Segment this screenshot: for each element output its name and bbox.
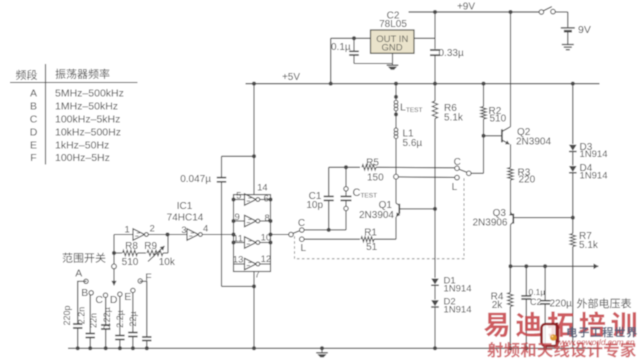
svg-text:4: 4: [203, 223, 208, 234]
svg-text:2: 2: [150, 224, 155, 235]
svg-text:+5V: +5V: [282, 72, 300, 83]
svg-text:0.1µ: 0.1µ: [331, 42, 351, 53]
svg-text:L: L: [452, 182, 458, 193]
svg-text:C2: C2: [530, 297, 542, 307]
svg-text:14: 14: [257, 182, 268, 193]
svg-text:2N3904: 2N3904: [359, 210, 394, 221]
svg-text:1kHz–50Hz: 1kHz–50Hz: [55, 140, 109, 152]
svg-text:220p: 220p: [62, 305, 72, 325]
svg-text:1: 1: [125, 225, 130, 236]
svg-text:D: D: [30, 127, 38, 139]
svg-text:3: 3: [181, 225, 186, 236]
svg-text:10p: 10p: [306, 200, 323, 211]
svg-text:1N914: 1N914: [444, 305, 472, 316]
svg-text:C: C: [454, 157, 461, 168]
svg-text:0.1µ: 0.1µ: [529, 287, 546, 297]
svg-text:78L05: 78L05: [379, 19, 407, 30]
svg-text:220µ: 220µ: [550, 299, 573, 310]
svg-text:100kHz–5kHz: 100kHz–5kHz: [55, 114, 120, 126]
svg-text:5: 5: [236, 191, 241, 202]
svg-text:1N914: 1N914: [580, 149, 608, 160]
svg-text:1N914: 1N914: [444, 284, 472, 295]
svg-text:8: 8: [264, 213, 269, 224]
svg-text:9V: 9V: [578, 24, 591, 36]
svg-text:GND: GND: [381, 42, 402, 53]
svg-text:510: 510: [122, 257, 139, 268]
svg-text:10kHz–500Hz: 10kHz–500Hz: [55, 127, 121, 139]
svg-text:F: F: [30, 152, 36, 164]
svg-text:C: C: [95, 294, 103, 306]
svg-text:5.1k: 5.1k: [444, 113, 464, 124]
svg-text:510: 510: [490, 114, 507, 125]
svg-text:B: B: [30, 101, 37, 113]
svg-text:1MHz–50kHz: 1MHz–50kHz: [55, 101, 118, 113]
svg-text:5.6µ: 5.6µ: [403, 138, 423, 149]
svg-text:0.33µ: 0.33µ: [439, 48, 464, 59]
svg-text:L: L: [301, 243, 307, 254]
svg-text:51: 51: [366, 242, 378, 253]
svg-text:12: 12: [261, 254, 272, 265]
svg-text:9: 9: [235, 212, 240, 223]
svg-text:6: 6: [264, 193, 269, 204]
svg-text:2.2n: 2.2n: [77, 307, 87, 325]
svg-text:R1: R1: [364, 228, 377, 239]
svg-text:1N914: 1N914: [580, 171, 608, 182]
svg-text:R5: R5: [366, 157, 379, 168]
svg-text:150: 150: [367, 173, 384, 184]
svg-text:E: E: [124, 291, 131, 303]
svg-text:C: C: [298, 218, 305, 229]
svg-text:0.22µ: 0.22µ: [102, 307, 112, 330]
svg-text:220: 220: [519, 175, 536, 186]
svg-text:2.2µ: 2.2µ: [115, 310, 125, 328]
svg-text:100Hz–5Hz: 100Hz–5Hz: [55, 152, 110, 164]
svg-text:0.047µ: 0.047µ: [180, 174, 211, 185]
svg-text:C: C: [30, 114, 38, 126]
svg-text:74HC14: 74HC14: [167, 213, 204, 224]
svg-text:13: 13: [233, 255, 244, 266]
svg-text:R9: R9: [144, 241, 157, 252]
svg-text:5MHz–500kHz: 5MHz–500kHz: [55, 88, 124, 100]
svg-text:A: A: [30, 88, 37, 100]
svg-text:2N3906: 2N3906: [472, 218, 507, 229]
svg-text:D: D: [110, 294, 118, 306]
svg-text:10k: 10k: [159, 257, 176, 268]
svg-text:R8: R8: [125, 241, 138, 252]
svg-text:22n: 22n: [89, 313, 99, 328]
svg-text:E: E: [30, 140, 37, 152]
svg-text:A: A: [75, 268, 82, 280]
svg-text:+9V: +9V: [457, 2, 475, 13]
svg-text:5.1k: 5.1k: [579, 240, 599, 251]
svg-text:7: 7: [255, 270, 260, 281]
svg-text:2k: 2k: [492, 300, 504, 311]
svg-text:2N3904: 2N3904: [516, 137, 551, 148]
svg-text:B: B: [81, 287, 88, 299]
svg-text:IC1: IC1: [177, 201, 193, 212]
svg-text:22µ: 22µ: [128, 311, 138, 326]
